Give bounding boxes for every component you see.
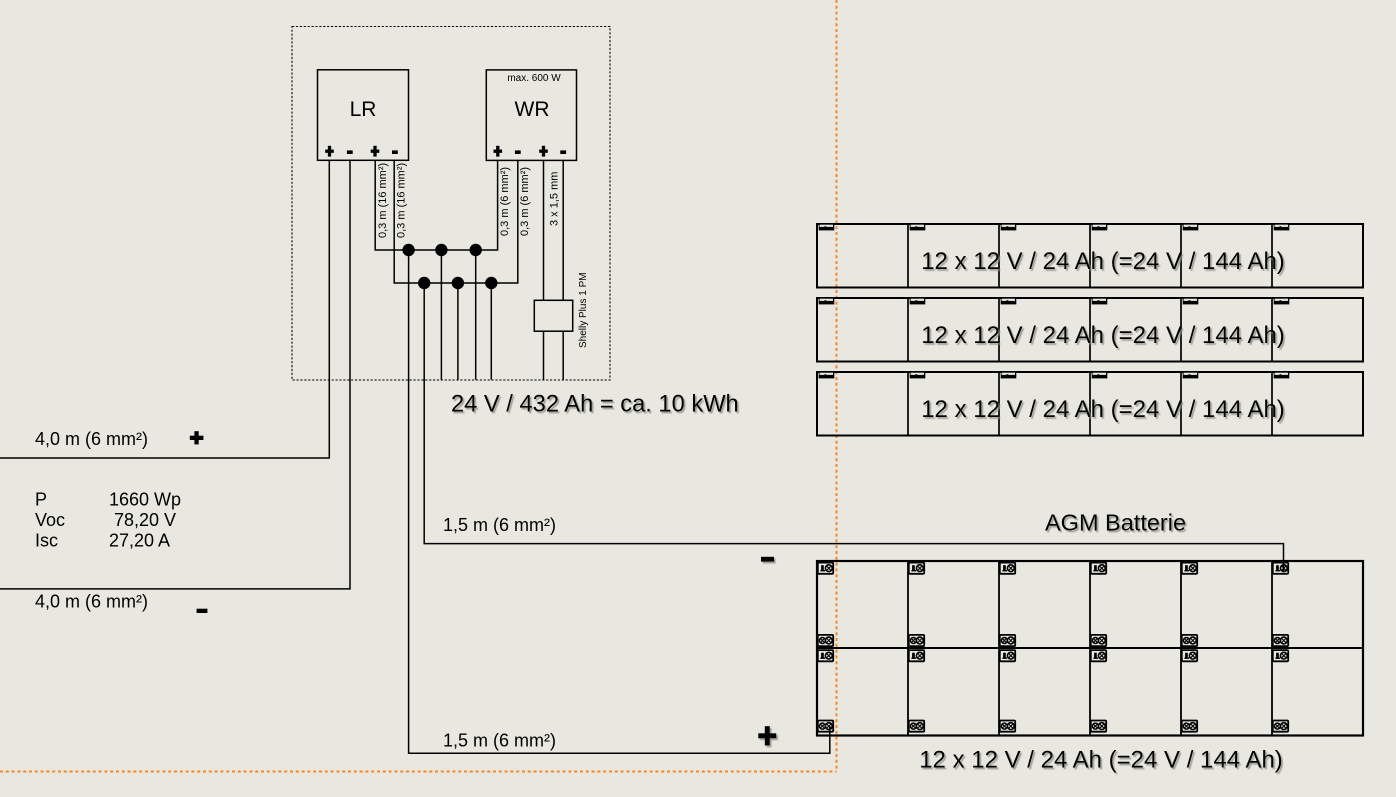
svg-text:max. 600 W: max. 600 W (507, 73, 561, 84)
svg-text:24 V / 432 Ah = ca. 10 kWh: 24 V / 432 Ah = ca. 10 kWh (451, 392, 739, 418)
svg-text:Shelly Plus 1 PM: Shelly Plus 1 PM (578, 272, 589, 348)
svg-text:1660 Wp: 1660 Wp (109, 490, 181, 510)
svg-text:0,3 m (6 mm²): 0,3 m (6 mm²) (499, 167, 511, 236)
svg-text:1,5 m (6 mm²): 1,5 m (6 mm²) (443, 730, 556, 750)
svg-text:3 x 1,5 mm: 3 x 1,5 mm (549, 172, 561, 226)
svg-text:12 x 12 V / 24 Ah (=24 V / 144: 12 x 12 V / 24 Ah (=24 V / 144 Ah) (921, 396, 1285, 423)
svg-text:12 x 12 V / 24 Ah (=24 V / 144: 12 x 12 V / 24 Ah (=24 V / 144 Ah) (921, 322, 1285, 349)
svg-text:4,0 m (6 mm²): 4,0 m (6 mm²) (35, 429, 148, 449)
svg-text:AGM Batterie: AGM Batterie (1045, 510, 1186, 536)
svg-text:1,5 m (6 mm²): 1,5 m (6 mm²) (443, 515, 556, 535)
svg-text:Isc: Isc (35, 530, 58, 550)
svg-text:12 x 12 V / 24 Ah (=24 V / 144: 12 x 12 V / 24 Ah (=24 V / 144 Ah) (919, 747, 1283, 774)
svg-text:WR: WR (515, 98, 550, 121)
svg-text:LR: LR (350, 98, 377, 121)
svg-text:0,3 m (16 mm²): 0,3 m (16 mm²) (377, 163, 389, 238)
svg-text:27,20 A: 27,20 A (109, 530, 170, 550)
svg-text:0,3 m (16 mm²): 0,3 m (16 mm²) (396, 163, 408, 238)
svg-text:Voc: Voc (35, 510, 65, 530)
svg-text:12 x 12 V / 24 Ah (=24 V / 144: 12 x 12 V / 24 Ah (=24 V / 144 Ah) (921, 248, 1285, 275)
svg-text:0,3 m (6 mm²): 0,3 m (6 mm²) (519, 167, 531, 236)
svg-text:78,20 V: 78,20 V (114, 510, 176, 530)
svg-text:4,0 m (6 mm²): 4,0 m (6 mm²) (35, 592, 148, 612)
svg-text:P: P (35, 490, 47, 510)
